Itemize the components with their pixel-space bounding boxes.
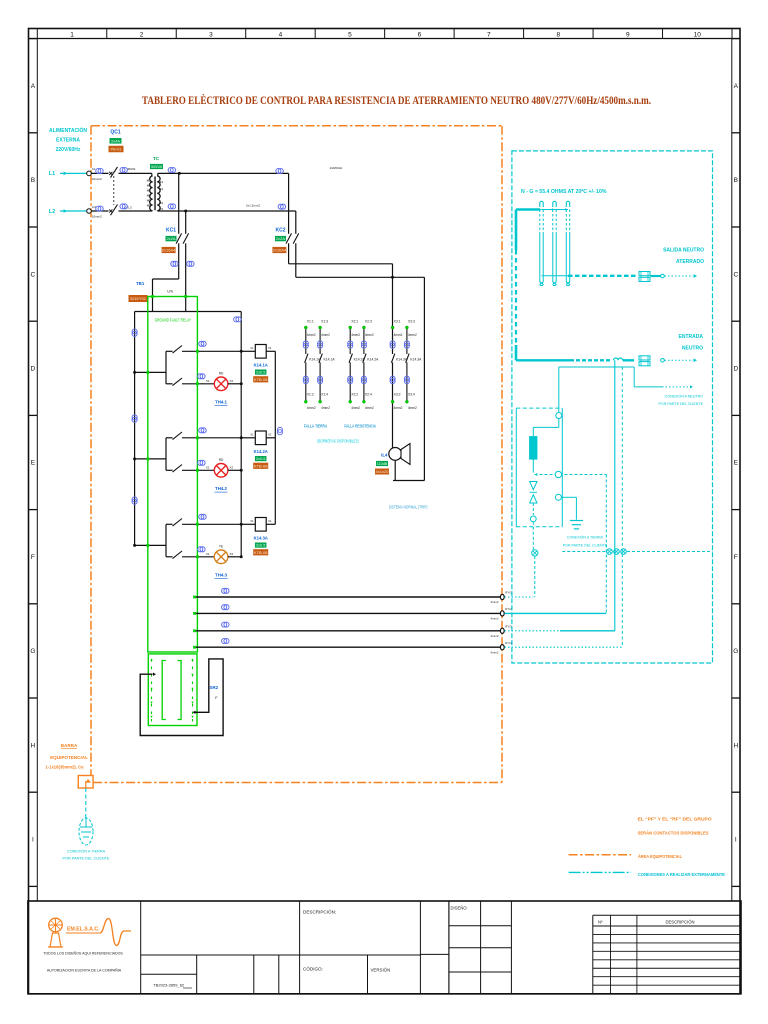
svg-text:RY/4: RY/4 xyxy=(505,641,512,645)
svg-text:QC1: QC1 xyxy=(110,130,121,136)
svg-text:3: 3 xyxy=(209,31,213,38)
svg-text:4mm2: 4mm2 xyxy=(307,333,316,337)
svg-text:CONEXIONES A REALIZAR EXTERNAM: CONEXIONES A REALIZAR EXTERNAMENTE xyxy=(638,872,726,878)
svg-text:X2: X2 xyxy=(230,552,234,556)
svg-text:4mm2: 4mm2 xyxy=(351,333,360,337)
svg-text:X1: X1 xyxy=(159,187,163,191)
svg-text:TH4.3: TH4.3 xyxy=(215,572,228,577)
svg-text:X1:2: X1:2 xyxy=(307,392,314,396)
svg-text:K14.2A: K14.2A xyxy=(367,357,379,361)
svg-text:BARRA: BARRA xyxy=(61,743,78,748)
svg-text:PB-01: PB-01 xyxy=(110,147,122,152)
svg-text:7: 7 xyxy=(487,31,491,38)
svg-text:RY/3: RY/3 xyxy=(505,624,512,628)
svg-text:4x1x20: 4x1x20 xyxy=(376,469,390,474)
svg-text:2x0.5: 2x0.5 xyxy=(256,544,265,548)
svg-text:TB1: TB1 xyxy=(136,281,145,286)
svg-text:IL4: IL4 xyxy=(381,453,388,458)
svg-text:X1:3: X1:3 xyxy=(321,320,328,324)
svg-text:8: 8 xyxy=(557,31,561,38)
svg-text:TB2023-2859_62: TB2023-2859_62 xyxy=(153,983,185,988)
svg-text:D: D xyxy=(31,366,36,373)
svg-text:4: 4 xyxy=(279,31,283,38)
svg-text:X1: X1 xyxy=(250,519,254,523)
svg-text:X1: X1 xyxy=(206,465,210,469)
svg-text:X3:1: X3:1 xyxy=(394,320,401,324)
svg-text:B: B xyxy=(734,177,738,184)
svg-text:4mm2: 4mm2 xyxy=(490,650,498,654)
svg-text:2x16A4: 2x16A4 xyxy=(162,248,176,253)
svg-text:DESCRIPCIÓN:: DESCRIPCIÓN: xyxy=(303,909,336,915)
svg-text:K14.1A: K14.1A xyxy=(254,362,268,367)
svg-text:KTB-08: KTB-08 xyxy=(254,377,268,382)
svg-text:ATERRADO: ATERRADO xyxy=(676,259,704,265)
svg-text:K14.3A: K14.3A xyxy=(410,357,422,361)
svg-text:H1: H1 xyxy=(147,179,151,183)
svg-text:AUTORIZACION ESCRITA DE LA COM: AUTORIZACION ESCRITA DE LA COMPAÑIA xyxy=(47,968,122,973)
svg-text:F: F xyxy=(734,554,738,561)
svg-text:EXTERNA: EXTERNA xyxy=(56,138,80,144)
svg-text:X1: X1 xyxy=(250,433,254,437)
svg-text:KC1: KC1 xyxy=(166,228,176,234)
svg-text:CONEXIÓN A NEUTRO: CONEXIÓN A NEUTRO xyxy=(665,394,704,399)
svg-text:POR PARTE DEL CLIENTE: POR PARTE DEL CLIENTE xyxy=(63,857,110,861)
svg-text:X1:4: X1:4 xyxy=(321,392,328,396)
svg-text:YE: YE xyxy=(219,544,223,548)
svg-text:5: 5 xyxy=(348,31,352,38)
svg-text:TC: TC xyxy=(153,156,160,161)
svg-text:RY/1: RY/1 xyxy=(505,591,512,595)
svg-text:ÁREA EQUIPOTENCIAL: ÁREA EQUIPOTENCIAL xyxy=(638,853,682,860)
svg-text:220V/60Hz: 220V/60Hz xyxy=(56,147,81,153)
svg-text:TABLERO ELÈCTRICO DE CONTROL P: TABLERO ELÈCTRICO DE CONTROL PARA RESIST… xyxy=(142,93,651,107)
svg-text:E: E xyxy=(734,460,739,467)
svg-text:480/6k: 480/6k xyxy=(127,167,136,171)
svg-text:4mm2: 4mm2 xyxy=(490,634,498,638)
svg-text:FALLA RESISTENCIA: FALLA RESISTENCIA xyxy=(344,424,376,429)
svg-text:CONEXIÓN A TIERRA: CONEXIÓN A TIERRA xyxy=(567,535,604,540)
svg-text:B: B xyxy=(31,177,35,184)
svg-text:C: C xyxy=(31,271,36,278)
svg-text:H: H xyxy=(733,742,738,749)
svg-text:4mm2: 4mm2 xyxy=(408,333,417,337)
svg-text:POR PARTE DEL CLIENTE: POR PARTE DEL CLIENTE xyxy=(563,544,608,548)
svg-text:X3:3: X3:3 xyxy=(408,320,415,324)
svg-text:X2: X2 xyxy=(230,379,234,383)
svg-text:X1:1: X1:1 xyxy=(307,320,314,324)
svg-text:L1: L1 xyxy=(49,171,55,177)
svg-text:G: G xyxy=(30,648,35,655)
svg-text:4mm2: 4mm2 xyxy=(394,333,403,337)
svg-text:TH4.1: TH4.1 xyxy=(215,399,228,404)
svg-text:2x2A: 2x2A xyxy=(166,236,175,241)
svg-text:521EY02: 521EY02 xyxy=(130,297,146,301)
svg-text:POR PARTE DEL CLIENTE: POR PARTE DEL CLIENTE xyxy=(659,402,704,406)
svg-text:ALIMENTACIÓN: ALIMENTACIÓN xyxy=(49,126,87,134)
svg-text:CÓDIGO:: CÓDIGO: xyxy=(303,966,323,972)
svg-text:4mm2: 4mm2 xyxy=(307,406,316,410)
svg-text:K14.1A: K14.1A xyxy=(324,357,336,361)
svg-text:2x0.5: 2x0.5 xyxy=(256,371,265,375)
svg-text:K14.3A: K14.3A xyxy=(254,535,268,540)
svg-text:K14.2A: K14.2A xyxy=(254,449,268,454)
svg-text:TH4.2: TH4.2 xyxy=(215,486,228,491)
svg-text:110dB: 110dB xyxy=(377,462,388,466)
svg-text:2: 2 xyxy=(140,31,144,38)
svg-text:I: I xyxy=(32,837,34,844)
svg-text:2x2A: 2x2A xyxy=(276,236,285,241)
svg-text:6: 6 xyxy=(418,31,422,38)
svg-text:N - G = 55.4 OHMS AT 20ºC +/-: N - G = 55.4 OHMS AT 20ºC +/- 10% xyxy=(521,189,607,195)
svg-text:1-1x16(35mm2), Cu: 1-1x16(35mm2), Cu xyxy=(45,765,84,770)
svg-text:KTB-08: KTB-08 xyxy=(254,550,268,555)
svg-text:D: D xyxy=(733,366,738,373)
svg-text:KC2: KC2 xyxy=(275,228,285,234)
svg-text:RD: RD xyxy=(219,371,224,375)
svg-text:ENTRADA: ENTRADA xyxy=(679,334,704,340)
svg-text:X2:1: X2:1 xyxy=(351,320,358,324)
svg-text:10mm2: 10mm2 xyxy=(92,177,102,181)
svg-text:H1: H1 xyxy=(147,189,151,193)
svg-text:EL “PF” Y EL “RF” DEL GRUPO: EL “PF” Y EL “RF” DEL GRUPO xyxy=(638,817,712,823)
svg-text:X2: X2 xyxy=(268,519,272,523)
svg-text:F: F xyxy=(31,554,35,561)
svg-text:2x0.5: 2x0.5 xyxy=(256,457,265,461)
svg-text:(BORNERAS DISPONIBLES): (BORNERAS DISPONIBLES) xyxy=(317,439,359,444)
svg-text:EQUIPOTENCIAL: EQUIPOTENCIAL xyxy=(50,755,88,760)
svg-text:X2: X2 xyxy=(268,433,272,437)
svg-text:X3:2: X3:2 xyxy=(394,392,401,396)
svg-text:CONEXIÓN A TIERRA: CONEXIÓN A TIERRA xyxy=(67,849,106,854)
svg-text:X1: X1 xyxy=(159,207,163,211)
svg-text:10: 10 xyxy=(694,31,702,38)
svg-text:H: H xyxy=(31,742,36,749)
svg-text:A: A xyxy=(734,83,739,90)
svg-text:2x16A4: 2x16A4 xyxy=(273,248,287,253)
svg-text:H1: H1 xyxy=(147,184,151,188)
svg-text:DESCRIPCIÓN: DESCRIPCIÓN xyxy=(665,920,694,925)
svg-text:4mm2: 4mm2 xyxy=(351,406,360,410)
svg-text:L2: L2 xyxy=(49,209,55,215)
svg-text:X2: X2 xyxy=(230,465,234,469)
svg-text:A: A xyxy=(31,83,36,90)
svg-text:VERSIÓN: VERSIÓN xyxy=(371,968,391,973)
svg-text:H1: H1 xyxy=(147,204,151,208)
svg-text:2x1.5mm2: 2x1.5mm2 xyxy=(246,204,260,208)
svg-text:X1: X1 xyxy=(159,180,163,184)
svg-text:Nº: Nº xyxy=(598,920,603,925)
svg-text:4mm2: 4mm2 xyxy=(394,406,403,410)
svg-text:X2:2: X2:2 xyxy=(351,392,358,396)
svg-text:1: 1 xyxy=(70,31,74,38)
svg-text:X1: X1 xyxy=(206,552,210,556)
svg-text:I: I xyxy=(735,837,737,844)
svg-text:TODOS LOS DISEÑOS AQUI REFEREN: TODOS LOS DISEÑOS AQUI REFERENCIADOS xyxy=(43,951,123,956)
svg-text:X2:3: X2:3 xyxy=(365,320,372,324)
svg-text:4mm2: 4mm2 xyxy=(365,406,374,410)
svg-text:SERÁN CONTACTOS DISPONIBLES: SERÁN CONTACTOS DISPONIBLES xyxy=(638,830,710,837)
svg-text:DISEÑO:: DISEÑO: xyxy=(451,906,468,911)
svg-text:X2:4: X2:4 xyxy=(365,392,372,396)
svg-text:X1: X1 xyxy=(206,379,210,383)
svg-text:X1: X1 xyxy=(159,201,163,205)
svg-text:10mm2: 10mm2 xyxy=(92,214,102,218)
svg-text:4mm2: 4mm2 xyxy=(365,333,374,337)
svg-text:X1: X1 xyxy=(250,346,254,350)
svg-text:240/60Hz: 240/60Hz xyxy=(330,166,343,170)
svg-text:X3:4: X3:4 xyxy=(408,392,415,396)
svg-text:X2: X2 xyxy=(268,346,272,350)
svg-text:SISTEMA NORMAL (TRIP): SISTEMA NORMAL (TRIP) xyxy=(389,505,428,510)
svg-text:4mm2: 4mm2 xyxy=(490,617,498,621)
svg-text:G: G xyxy=(733,648,738,655)
svg-text:U/S: U/S xyxy=(167,290,173,294)
svg-text:500VA: 500VA xyxy=(151,165,163,169)
svg-text:KTB-08: KTB-08 xyxy=(254,463,268,468)
svg-text:NEUTRO: NEUTRO xyxy=(682,346,703,352)
svg-text:2x4A: 2x4A xyxy=(111,138,120,143)
svg-text:H1: H1 xyxy=(147,194,151,198)
svg-text:RD: RD xyxy=(219,458,224,462)
svg-text:4mm2: 4mm2 xyxy=(321,333,330,337)
svg-text:4mm2: 4mm2 xyxy=(490,600,498,604)
svg-text:SR2: SR2 xyxy=(210,685,219,690)
svg-text:H1: H1 xyxy=(147,199,151,203)
svg-text:4mm2: 4mm2 xyxy=(321,406,330,410)
svg-text:EM.EL.S.A.C.: EM.EL.S.A.C. xyxy=(67,927,100,933)
svg-text:SALIDA NEUTRO: SALIDA NEUTRO xyxy=(663,248,704,254)
svg-text:9: 9 xyxy=(626,31,630,38)
svg-text:FALLA TIERRA: FALLA TIERRA xyxy=(304,424,327,429)
svg-text:RY/2: RY/2 xyxy=(505,607,512,611)
svg-text:GROUND FAULT RELAY: GROUND FAULT RELAY xyxy=(155,318,191,323)
svg-text:4mm2: 4mm2 xyxy=(408,406,417,410)
svg-text:C: C xyxy=(733,271,738,278)
svg-text:E: E xyxy=(31,460,36,467)
